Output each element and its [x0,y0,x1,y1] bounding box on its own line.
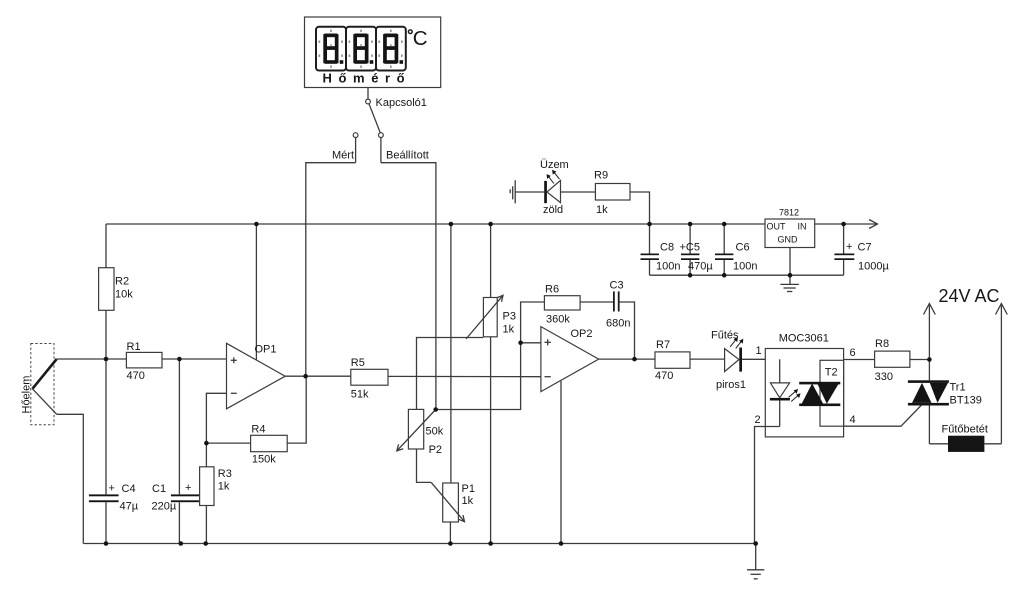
svg-text:BT139: BT139 [950,395,982,407]
svg-text:47µ: 47µ [120,501,139,513]
svg-text:MOC3061: MOC3061 [779,333,829,345]
svg-text:Fűtés: Fűtés [711,330,739,342]
svg-text:GND: GND [778,235,799,245]
svg-text:+C5: +C5 [680,242,701,254]
svg-text:1k: 1k [462,495,474,507]
svg-text:+: + [109,483,115,495]
svg-text:C1: C1 [152,483,166,495]
svg-text:1k: 1k [503,324,515,336]
svg-text:1: 1 [756,345,762,357]
svg-text:piros1: piros1 [716,379,746,391]
svg-text:C6: C6 [736,242,750,254]
svg-text:C3: C3 [610,280,624,292]
svg-text:2: 2 [755,414,761,426]
svg-text:R1: R1 [127,341,141,353]
svg-text:Mért: Mért [332,150,354,162]
svg-text:R3: R3 [218,468,232,480]
svg-text:Hőelem: Hőelem [21,376,33,414]
svg-text:Fűtőbetét: Fűtőbetét [942,424,988,436]
svg-text:+: + [846,241,852,253]
svg-text:R6: R6 [545,284,559,296]
svg-text:Üzem: Üzem [540,159,569,171]
svg-text:R5: R5 [351,357,365,369]
svg-text:470: 470 [655,370,673,382]
svg-text:Beállított: Beállított [386,150,429,162]
svg-text:OP2: OP2 [571,328,593,340]
svg-text:360k: 360k [546,314,570,326]
svg-text:C: C [413,27,428,50]
svg-text:680n: 680n [606,318,630,330]
svg-text:IN: IN [798,222,807,232]
svg-text:10k: 10k [115,289,133,301]
svg-text:7812: 7812 [779,208,799,218]
svg-text:C7: C7 [858,242,872,254]
svg-text:P2: P2 [429,444,442,456]
svg-text:P1: P1 [462,483,475,495]
svg-text:C4: C4 [122,483,136,495]
svg-text:1k: 1k [596,204,608,216]
svg-text:470µ: 470µ [688,261,713,273]
svg-text:Hőmérő: Hőmérő [323,71,412,86]
svg-text:R7: R7 [656,339,670,351]
svg-text:100n: 100n [733,261,757,273]
svg-text:R4: R4 [251,424,265,436]
svg-text:R8: R8 [875,338,889,350]
svg-text:50k: 50k [426,426,444,438]
svg-text:Kapcsoló1: Kapcsoló1 [376,97,427,109]
svg-text:OP1: OP1 [255,344,277,356]
svg-text:zöld: zöld [543,204,563,216]
svg-text:R2: R2 [115,276,129,288]
svg-text:1000µ: 1000µ [858,261,889,273]
svg-text:24V AC: 24V AC [939,286,1000,306]
svg-text:OUT: OUT [767,222,787,232]
svg-text:Tr1: Tr1 [950,382,966,394]
svg-text:C8: C8 [660,242,674,254]
svg-text:150k: 150k [252,454,276,466]
svg-text:51k: 51k [351,389,369,401]
svg-text:+: + [185,482,191,494]
svg-text:R9: R9 [594,170,608,182]
svg-text:330: 330 [875,371,893,383]
svg-text:T2: T2 [825,366,838,378]
svg-text:1k: 1k [218,481,230,493]
svg-text:4: 4 [850,414,856,426]
svg-text:470: 470 [127,370,145,382]
svg-text:P3: P3 [503,311,516,323]
svg-text:6: 6 [850,347,856,359]
svg-text:220µ: 220µ [152,501,177,513]
svg-text:100n: 100n [656,261,680,273]
